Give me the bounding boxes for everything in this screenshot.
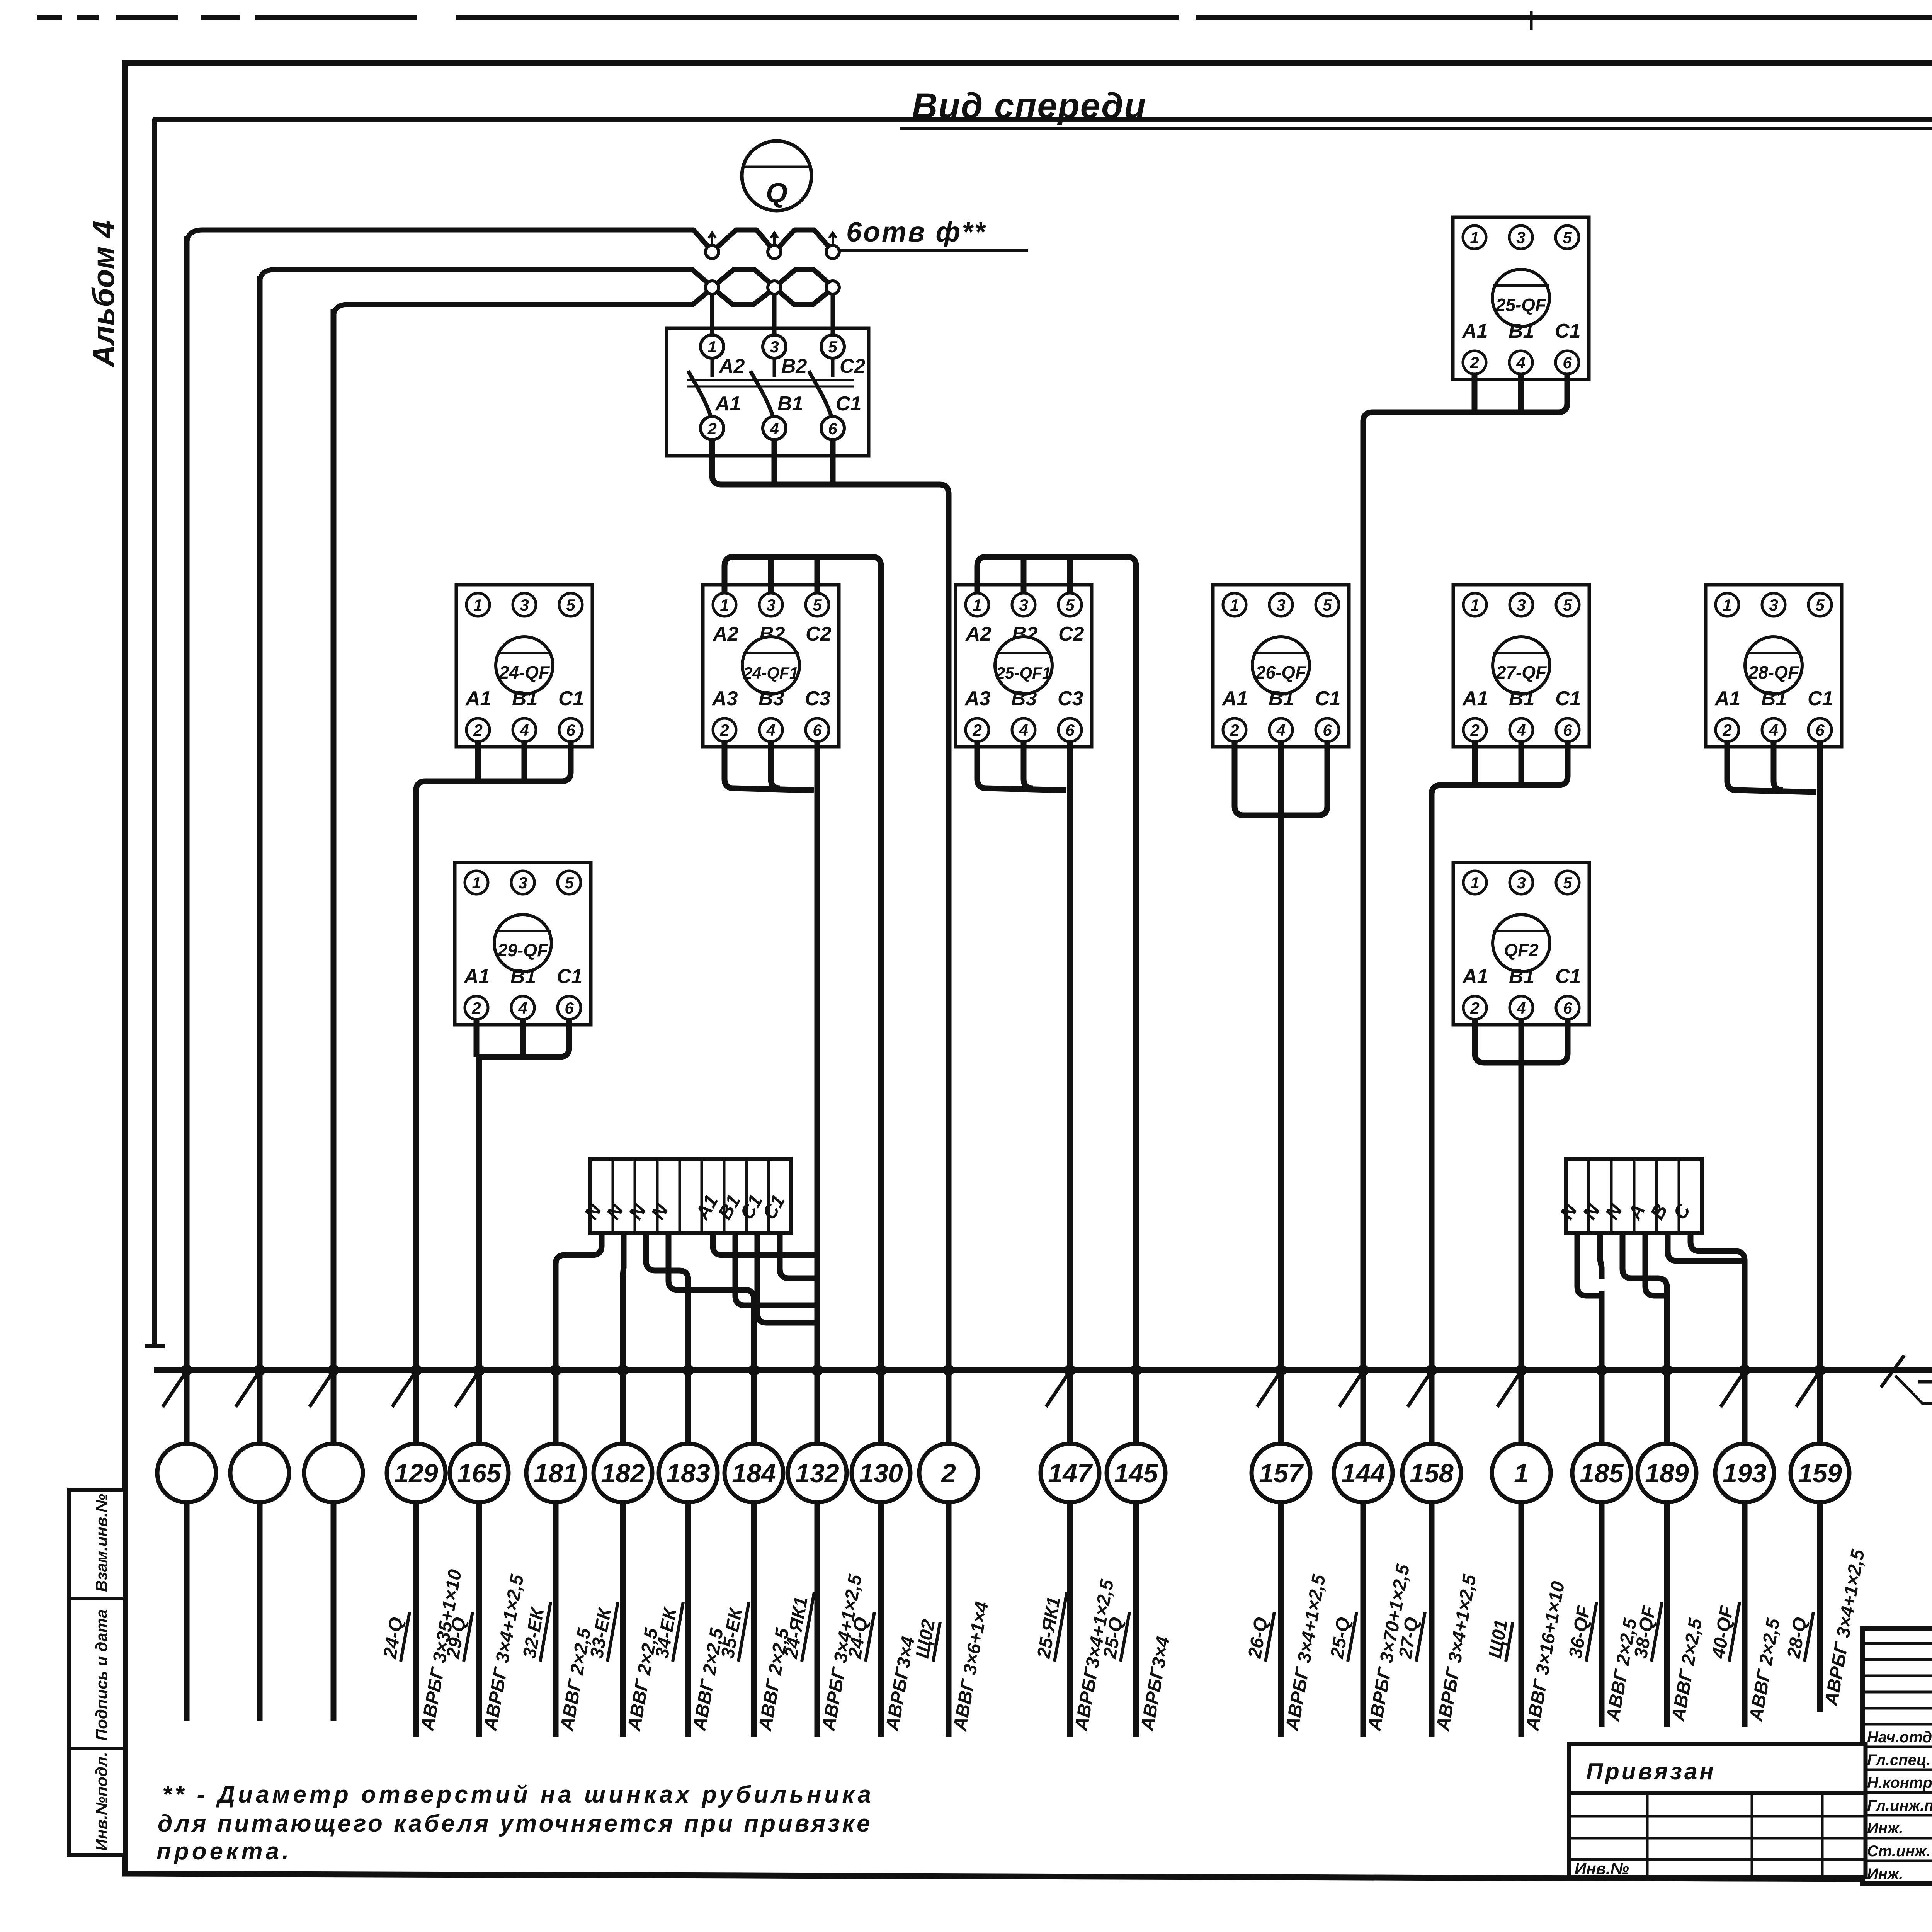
svg-text:С3: С3 [805,687,831,710]
svg-text:1: 1 [707,338,716,356]
signature row Н.контр. Нестеренко [1862,1769,1932,1771]
binding sub-table [1569,1793,1866,1877]
svg-text:4: 4 [1516,999,1526,1017]
svg-text:5: 5 [813,596,822,614]
svg-text:3: 3 [770,338,779,356]
svg-text:6: 6 [1065,721,1075,739]
svg-text:Альбом 4: Альбом 4 [86,221,121,368]
svg-text:В1: В1 [512,687,537,710]
wire: cable column 182 vertical [620,1283,626,1737]
bus junction at cable 158 [1426,1364,1437,1376]
bus junction at cable 159 [1814,1364,1826,1376]
cable id label 24-Q [866,1612,874,1662]
svg-text:4: 4 [766,721,775,739]
wire: right strip cell5 tap to cable 193 [1668,1233,1745,1261]
svg-text:Гл.инж.пр.: Гл.инж.пр. [1867,1797,1932,1814]
cable circle 129 [387,1444,446,1502]
cable circle 145 [1107,1444,1165,1502]
svg-text:3: 3 [1019,596,1028,614]
bus tick at cable 193 [1721,1373,1743,1407]
wire: cable column 144 vertical [1361,433,1366,1737]
circuit breaker 28-QF [1706,585,1842,747]
bus junction at cable 185 [1596,1364,1607,1376]
cable circle 144 [1334,1444,1393,1502]
wire: 27-QF outputs to cable 158 [1432,742,1568,811]
wire contact to switch pin x=2155 [831,294,835,340]
svg-text:С1: С1 [1315,687,1340,710]
svg-text:1: 1 [473,596,482,614]
svg-text:2: 2 [972,721,981,739]
svg-text:6отв ф**: 6отв ф** [846,217,986,248]
registration tick on sheet top edge [1530,11,1533,30]
wire: right strip cell4 tap to cable 189 [1645,1233,1667,1296]
wire: cable column 2 vertical [946,510,952,1737]
bus right end terminator [1918,1370,1932,1382]
svg-text:А2: А2 [718,355,745,378]
wire: 24-QF1 outputs to cable 132 [724,742,814,790]
wire: left strip cell1 to cable 181 [556,1233,602,1279]
switch top pin 1 [701,335,724,358]
cable circle spare [304,1444,363,1502]
wire: left strip cell4 to cable 184 [668,1233,754,1314]
svg-text:4: 4 [1516,354,1525,372]
cable circle 183 [659,1444,718,1502]
signature row Инж. Петухова [1862,1814,1932,1817]
svg-text:С2: С2 [806,623,832,645]
wire: 28-QF outputs to cable 159 [1727,742,1816,792]
bus tick at cable 165 [455,1373,478,1407]
svg-text:С2: С2 [1058,623,1084,645]
switch blade pole В1 [750,371,773,416]
signature row Инж. Копп [1862,1860,1932,1862]
busbar phase B (middle) [260,270,833,1673]
bus junction at cable 129 [410,1364,422,1376]
bus junction at cable 2 [943,1364,954,1376]
svg-text:6: 6 [1323,721,1332,739]
wire: right strip cell3 to cable 189 [1622,1233,1667,1302]
label Шина нулевая [1895,1376,1932,1403]
bus junction at cable spare [254,1364,265,1376]
left stamp strip [69,1490,125,1855]
svg-text:2: 2 [473,721,482,739]
wire: cable column 159 vertical [1817,808,1823,1712]
bus tick at cable 144 [1339,1373,1362,1407]
circuit breaker 29-QF [455,862,591,1025]
svg-text:5: 5 [1563,874,1572,892]
bus junction at cable 189 [1661,1364,1673,1376]
neutral bus (шина нулевая) [154,1367,1932,1373]
svg-text:2: 2 [719,721,729,739]
wire contact to switch pin x=2004 [772,294,777,340]
cable circle 165 [450,1444,509,1502]
wire: switch output collector to cable 2 [712,440,949,514]
svg-text:145: 145 [1114,1459,1158,1488]
wire: cable column 158 vertical [1429,808,1435,1737]
cable id label 25-Q [1348,1612,1357,1662]
cable circle 147 [1041,1444,1099,1502]
svg-text:6: 6 [813,721,822,739]
switch bottom pin 2 [701,417,724,440]
switch upper contact x=2155 [826,245,839,259]
svg-text:Ст.инж.: Ст.инж. [1867,1843,1930,1860]
svg-text:6: 6 [1563,721,1572,739]
wire: cable column 181 vertical [553,1271,559,1737]
sheet top edge [37,15,1932,20]
bus junction at cable 165 [473,1364,485,1376]
svg-text:6: 6 [1563,999,1572,1017]
bus junction at cable 183 [682,1364,694,1376]
wire: 25-QF1 outputs to cable 147 [977,742,1066,790]
svg-text:А3: А3 [964,687,991,710]
busbar phase A (top) [187,230,833,1673]
svg-text:158: 158 [1410,1459,1454,1488]
bus junction at cable 144 [1357,1364,1369,1376]
bus junction at cable spare [181,1364,192,1376]
cable circle 157 [1252,1444,1310,1502]
circuit breaker 26-QF [1213,585,1349,747]
wire: right strip cell2 to cable 185 [1600,1233,1602,1279]
cable circle 181 [526,1444,585,1502]
cable circle 2 [919,1444,978,1502]
cable circle 193 [1715,1444,1774,1502]
svg-text:В3: В3 [759,687,784,710]
svg-text:1: 1 [720,596,729,614]
svg-text:3: 3 [1516,228,1525,247]
svg-text:2: 2 [1722,721,1731,739]
svg-text:С1: С1 [1808,687,1833,710]
bus tick at cable spare [236,1373,258,1407]
wire: 25-QF outputs to cable 144 [1363,374,1567,437]
cable circle spare [230,1444,289,1502]
bus break slash [1881,1355,1904,1387]
svg-text:4: 4 [769,420,779,438]
switch lower contact x=2004 [768,281,781,294]
circuit breaker QF2 [1453,862,1589,1025]
svg-text:3: 3 [520,596,529,614]
bus junction at cable 184 [748,1364,760,1376]
wire contact to switch pin x=1843 [710,294,714,340]
cable circle 182 [594,1444,652,1502]
wire: neutral top run and right drop with end bar [155,119,1932,1344]
switch top pin 3 [763,335,786,358]
disconnector handle Q [742,141,811,211]
signature row Гл.спец. Нестеренко [1862,1746,1932,1748]
bus junction at cable 130 [875,1364,887,1376]
wire: cable column 165 vertical [476,1074,482,1737]
svg-text:В1: В1 [1269,687,1294,710]
svg-text:5: 5 [828,338,837,356]
cable id label 27-Q [1416,1612,1425,1662]
wire: cable column spare vertical [331,309,337,1721]
svg-text:5: 5 [1563,228,1572,247]
view title underline / leader [900,127,1932,130]
cable id label 33-ЕК [607,1602,618,1662]
wire: cable column 157 vertical [1278,831,1284,1737]
cable circle 159 [1791,1444,1849,1502]
wire: cable column spare vertical [184,236,190,1721]
svg-text:2: 2 [707,420,716,438]
svg-text:165: 165 [457,1459,502,1488]
cable circle 1 [1492,1444,1551,1502]
svg-text:6: 6 [566,721,575,739]
svg-text:193: 193 [1723,1459,1767,1488]
svg-text:26-QF: 26-QF [1255,662,1307,682]
cable id label 34-ЕК [673,1602,683,1662]
svg-text:А2: А2 [965,623,992,645]
cable id label 25-ЯК1 [1054,1592,1067,1662]
wire: cable column 129 vertical [413,796,419,1737]
cable id label Щ01 [1506,1622,1513,1662]
svg-text:6: 6 [565,999,574,1017]
svg-text:6: 6 [1815,721,1825,739]
wire: cable column spare vertical [257,276,263,1721]
svg-text:3: 3 [1517,596,1526,614]
svg-text:Инв.№подл.: Инв.№подл. [92,1752,111,1851]
switch blade pole А1 [688,371,711,416]
svg-text:1: 1 [1723,596,1731,614]
wire: left strip cell7 tap to cable 132 [735,1233,817,1305]
wire: left strip cell6 tap to cable 132 [713,1233,817,1255]
svg-text:QF2: QF2 [1504,940,1539,960]
wire: cable column 1 vertical [1519,1082,1524,1737]
svg-text:4: 4 [1019,721,1028,739]
svg-text:4: 4 [518,999,527,1017]
wire: cable column 132 vertical [815,811,820,1737]
bus junction at cable 193 [1739,1364,1750,1376]
terminal strip right (6 cells) [1566,1159,1702,1233]
title block outer [1862,1629,1932,1883]
bus junction at cable 182 [617,1364,629,1376]
svg-text:2: 2 [1469,354,1479,372]
signature row Нач.отд. Никитин [1862,1723,1932,1726]
svg-text:5: 5 [1065,596,1075,614]
svg-text:5: 5 [1323,596,1332,614]
wire: QF2 outputs to cable 1 [1475,1019,1519,1063]
svg-text:В1: В1 [1509,687,1534,710]
bus tick at cable 158 [1408,1373,1430,1407]
svg-text:183: 183 [666,1459,710,1488]
svg-text:А1: А1 [1462,687,1488,710]
cable id label 40-QF [1729,1602,1740,1662]
svg-text:Инв.№: Инв.№ [1575,1859,1629,1878]
svg-text:2: 2 [1470,999,1479,1017]
switch bottom pin 4 [763,417,786,440]
svg-text:1: 1 [1230,596,1239,614]
wire: 26-QF outputs to cable 157 [1235,742,1279,815]
svg-text:С3: С3 [1058,687,1083,710]
wire: left strip cell9 tap to cable 132 [780,1233,817,1278]
svg-text:Гл.спец.: Гл.спец. [1867,1752,1931,1769]
svg-text:С1: С1 [1555,320,1580,342]
circuit breaker 25-QF1 [956,585,1092,747]
svg-text:130: 130 [859,1459,903,1488]
svg-text:В1: В1 [510,965,536,988]
cable circle spare [157,1444,216,1502]
svg-text:24-QF: 24-QF [499,662,550,682]
svg-text:Инж.: Инж. [1867,1866,1903,1883]
svg-text:3: 3 [766,596,775,614]
svg-text:В1: В1 [1509,965,1534,988]
bus tick at cable spare [310,1373,332,1407]
svg-text:1: 1 [1470,228,1479,247]
svg-text:А3: А3 [711,687,738,710]
bus tick at cable 1 [1497,1373,1520,1407]
svg-text:24-QF1: 24-QF1 [743,664,798,682]
cable id label Щ02 [933,1622,940,1662]
svg-text:4: 4 [1276,721,1285,739]
bus tick at cable spare [163,1373,185,1407]
wire: cable column 193 vertical [1742,1271,1748,1727]
wire: left strip cell2 to cable 182 [623,1233,624,1287]
wire: left strip cell3 to cable 183 [646,1233,688,1294]
svg-text:181: 181 [534,1459,577,1488]
wire: cable column 185 vertical [1599,1291,1605,1727]
cable id label 36-QF [1586,1602,1597,1662]
wire: cable column 189 vertical [1664,1298,1670,1727]
svg-text:Привязан: Привязан [1586,1759,1716,1784]
svg-text:Н.контр.: Н.контр. [1867,1774,1932,1791]
svg-text:1: 1 [1470,874,1479,892]
switch upper contact x=2004 [768,245,781,259]
svg-text:25-QF: 25-QF [1495,295,1547,315]
svg-text:Взам.инв.№: Взам.инв.№ [92,1494,111,1592]
binding box Привязан [1569,1744,1866,1793]
bus junction at cable 1 [1515,1364,1527,1376]
svg-text:С1: С1 [836,393,861,415]
circuit breaker 24-QF [456,585,592,747]
bus junction at cable 132 [811,1364,823,1376]
svg-text:А1: А1 [1714,687,1740,710]
wire: 24-QF1 top collector to cable 130 [724,557,881,593]
wire: cable column 130 vertical [878,580,884,1737]
svg-text:144: 144 [1341,1459,1385,1488]
signature row Гл.инж.пр. Бобрик [1862,1791,1932,1794]
switch blade pole С1 [809,371,831,416]
bus junction at cable 145 [1130,1364,1142,1376]
cable id label 35-ЕК [738,1602,749,1662]
svg-text:В3: В3 [1011,687,1037,710]
svg-text:В1: В1 [1761,687,1787,710]
svg-text:3: 3 [1517,874,1526,892]
svg-text:2: 2 [940,1459,956,1488]
svg-text:2: 2 [1470,721,1479,739]
cable circle 185 [1572,1444,1631,1502]
svg-text:5: 5 [1563,596,1572,614]
circuit breaker 27-QF [1453,585,1589,747]
bus tick at cable 129 [392,1373,415,1407]
wire: left strip cell8 tap to cable 132 [757,1233,817,1323]
cable circle 189 [1638,1444,1696,1502]
svg-text:3: 3 [1276,596,1285,614]
svg-text:А1: А1 [1221,687,1248,710]
wire: 25-QF1 top collector to cable 145 [977,557,1136,593]
cable id label 38-QF [1651,1602,1662,1662]
svg-text:185: 185 [1580,1459,1624,1488]
bus tick at cable 159 [1796,1373,1818,1407]
svg-text:1: 1 [973,596,981,614]
svg-text:2: 2 [471,999,481,1017]
svg-text:2: 2 [1230,721,1239,739]
svg-text:4: 4 [1516,721,1526,739]
svg-text:1: 1 [472,874,481,892]
cable circle 130 [852,1444,910,1502]
switch box [667,328,869,456]
svg-text:С1: С1 [1555,965,1581,988]
svg-text:С1: С1 [558,687,584,710]
svg-text:4: 4 [1769,721,1778,739]
svg-text:** - Диаметр отверстий на ш: ** - Диаметр отверстий на шинках рубильн… [162,1781,874,1808]
bus tick at cable 147 [1046,1373,1068,1407]
svg-text:3: 3 [1769,596,1778,614]
svg-text:проекта.: проекта. [156,1838,292,1865]
svg-text:С1: С1 [1555,687,1581,710]
cable id label 29-Q [464,1612,473,1662]
bus junction at cable 147 [1064,1364,1076,1376]
svg-text:Подпись и дата: Подпись и дата [92,1609,111,1741]
wire: 29-QF outputs to cable 165 [479,1019,569,1082]
svg-text:28-QF: 28-QF [1748,662,1799,682]
wire: cable column 147 vertical [1067,811,1073,1737]
svg-text:В1: В1 [777,393,803,415]
wire: cable column 183 vertical [685,1287,691,1737]
cable circle 158 [1402,1444,1461,1502]
switch upper contact x=1843 [706,245,719,259]
svg-text:А1: А1 [463,965,490,988]
svg-text:129: 129 [394,1459,438,1488]
circuit breaker 24-QF1 [703,585,839,747]
bus tick at cable 157 [1257,1373,1279,1407]
switch top pin 5 [821,335,844,358]
bus junction at cable spare [328,1364,339,1376]
cable id label 25-Q [1121,1612,1129,1662]
cable id label 24-ЯК1 [802,1592,814,1662]
svg-text:132: 132 [795,1459,839,1488]
busbar leader to 6отв label [835,249,1028,252]
cable id label 24-Q [401,1612,410,1662]
svg-text:Инж.: Инж. [1867,1820,1903,1837]
wire: right strip cell6 to cable 193 [1690,1233,1745,1275]
svg-text:С1: С1 [557,965,582,988]
cable id label 32-ЕК [540,1602,551,1662]
cable circle 132 [788,1444,847,1502]
svg-text:В1: В1 [1509,320,1534,342]
switch blade crossbar [687,379,854,381]
svg-text:5: 5 [566,596,575,614]
circuit breaker 25-QF [1453,217,1589,379]
svg-text:3: 3 [518,874,527,892]
svg-text:для питающего кабеля уточня: для питающего кабеля уточняется при прив… [158,1810,872,1837]
svg-text:А1: А1 [714,393,741,415]
cable id label 26-Q [1265,1612,1274,1662]
signature row Ст.инж. Лазебник [1862,1837,1932,1840]
svg-text:5: 5 [565,874,574,892]
svg-text:27-QF: 27-QF [1496,662,1547,682]
svg-text:6: 6 [1563,354,1572,372]
svg-text:1: 1 [1514,1459,1529,1488]
svg-text:25-QF1: 25-QF1 [996,664,1051,682]
svg-text:А1: А1 [465,687,491,710]
svg-text:Нач.отд.: Нач.отд. [1867,1729,1932,1746]
svg-text:184: 184 [732,1459,776,1488]
wire: cable column 145 vertical [1133,580,1139,1737]
bus junction at cable 181 [550,1364,561,1376]
switch bottom pin 6 [821,417,844,440]
svg-text:1: 1 [1470,596,1479,614]
switch lower contact x=1843 [706,281,719,294]
svg-text:29-QF: 29-QF [497,940,549,960]
wire: 24-QF outputs to cable 129 [416,742,571,808]
cable circle 184 [724,1444,783,1502]
